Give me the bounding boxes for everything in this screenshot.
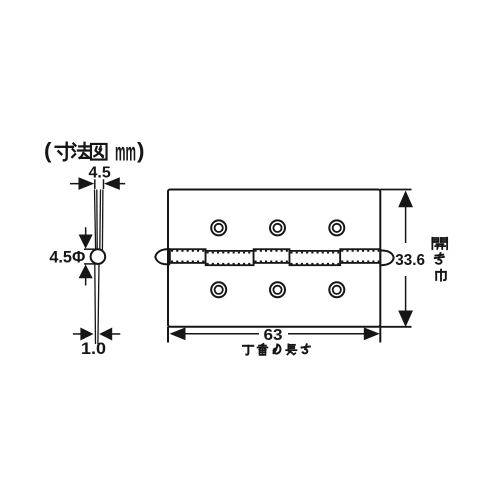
extension lines for 4.5 — [95, 179, 104, 189]
svg-text:4.5: 4.5 — [89, 165, 111, 182]
pin end cap right — [380, 250, 393, 265]
label 開き巾 (vertical) — [432, 238, 447, 281]
svg-text:): ) — [137, 138, 145, 163]
dimension arrows 4.5 — [70, 177, 125, 190]
title (寸法図 mm) — [44, 137, 145, 167]
down arrow to knuckle top — [79, 227, 93, 248]
svg-text:mm: mm — [115, 137, 136, 167]
screw hole bottom-right — [329, 282, 344, 297]
hinge plate outline — [168, 190, 380, 327]
knuckle circle (side view) — [91, 249, 106, 264]
screw hole top-right — [329, 220, 344, 235]
extension line bottom edge — [380, 326, 411, 328]
pin end cap left — [155, 249, 170, 264]
extension line left edge below — [167, 327, 169, 343]
knuckle segment 3 — [254, 249, 290, 263]
dimension line 63 — [172, 333, 377, 335]
tangent line at knuckle top — [84, 248, 98, 250]
tangent line at knuckle bottom — [84, 263, 98, 265]
dimension arrows 1.0 — [73, 328, 120, 341]
knuckle segment 1 — [170, 249, 206, 263]
svg-text:1.0: 1.0 — [81, 339, 106, 358]
screw hole bottom-left — [211, 282, 226, 297]
knuckle segment 5 — [340, 249, 380, 263]
svg-text:63: 63 — [264, 327, 283, 344]
up arrow to knuckle bottom — [79, 264, 93, 285]
screw hole top-middle — [270, 220, 285, 235]
dimension line 33.6 — [405, 193, 407, 326]
svg-text:(: ( — [44, 138, 52, 163]
knuckle segment 2 — [206, 251, 254, 265]
svg-text:33.6: 33.6 — [395, 252, 425, 269]
screw hole bottom-middle — [270, 282, 285, 297]
label 丁番の長さ — [243, 344, 310, 355]
extension line right edge below — [379, 327, 381, 343]
side profile lower leaf — [95, 264, 99, 344]
svg-text:4.5Φ: 4.5Φ — [49, 247, 85, 266]
knuckle segment 4 — [290, 251, 341, 265]
extension line top edge — [380, 189, 411, 191]
screw hole top-left — [211, 220, 226, 235]
side profile upper leaves — [95, 190, 103, 251]
